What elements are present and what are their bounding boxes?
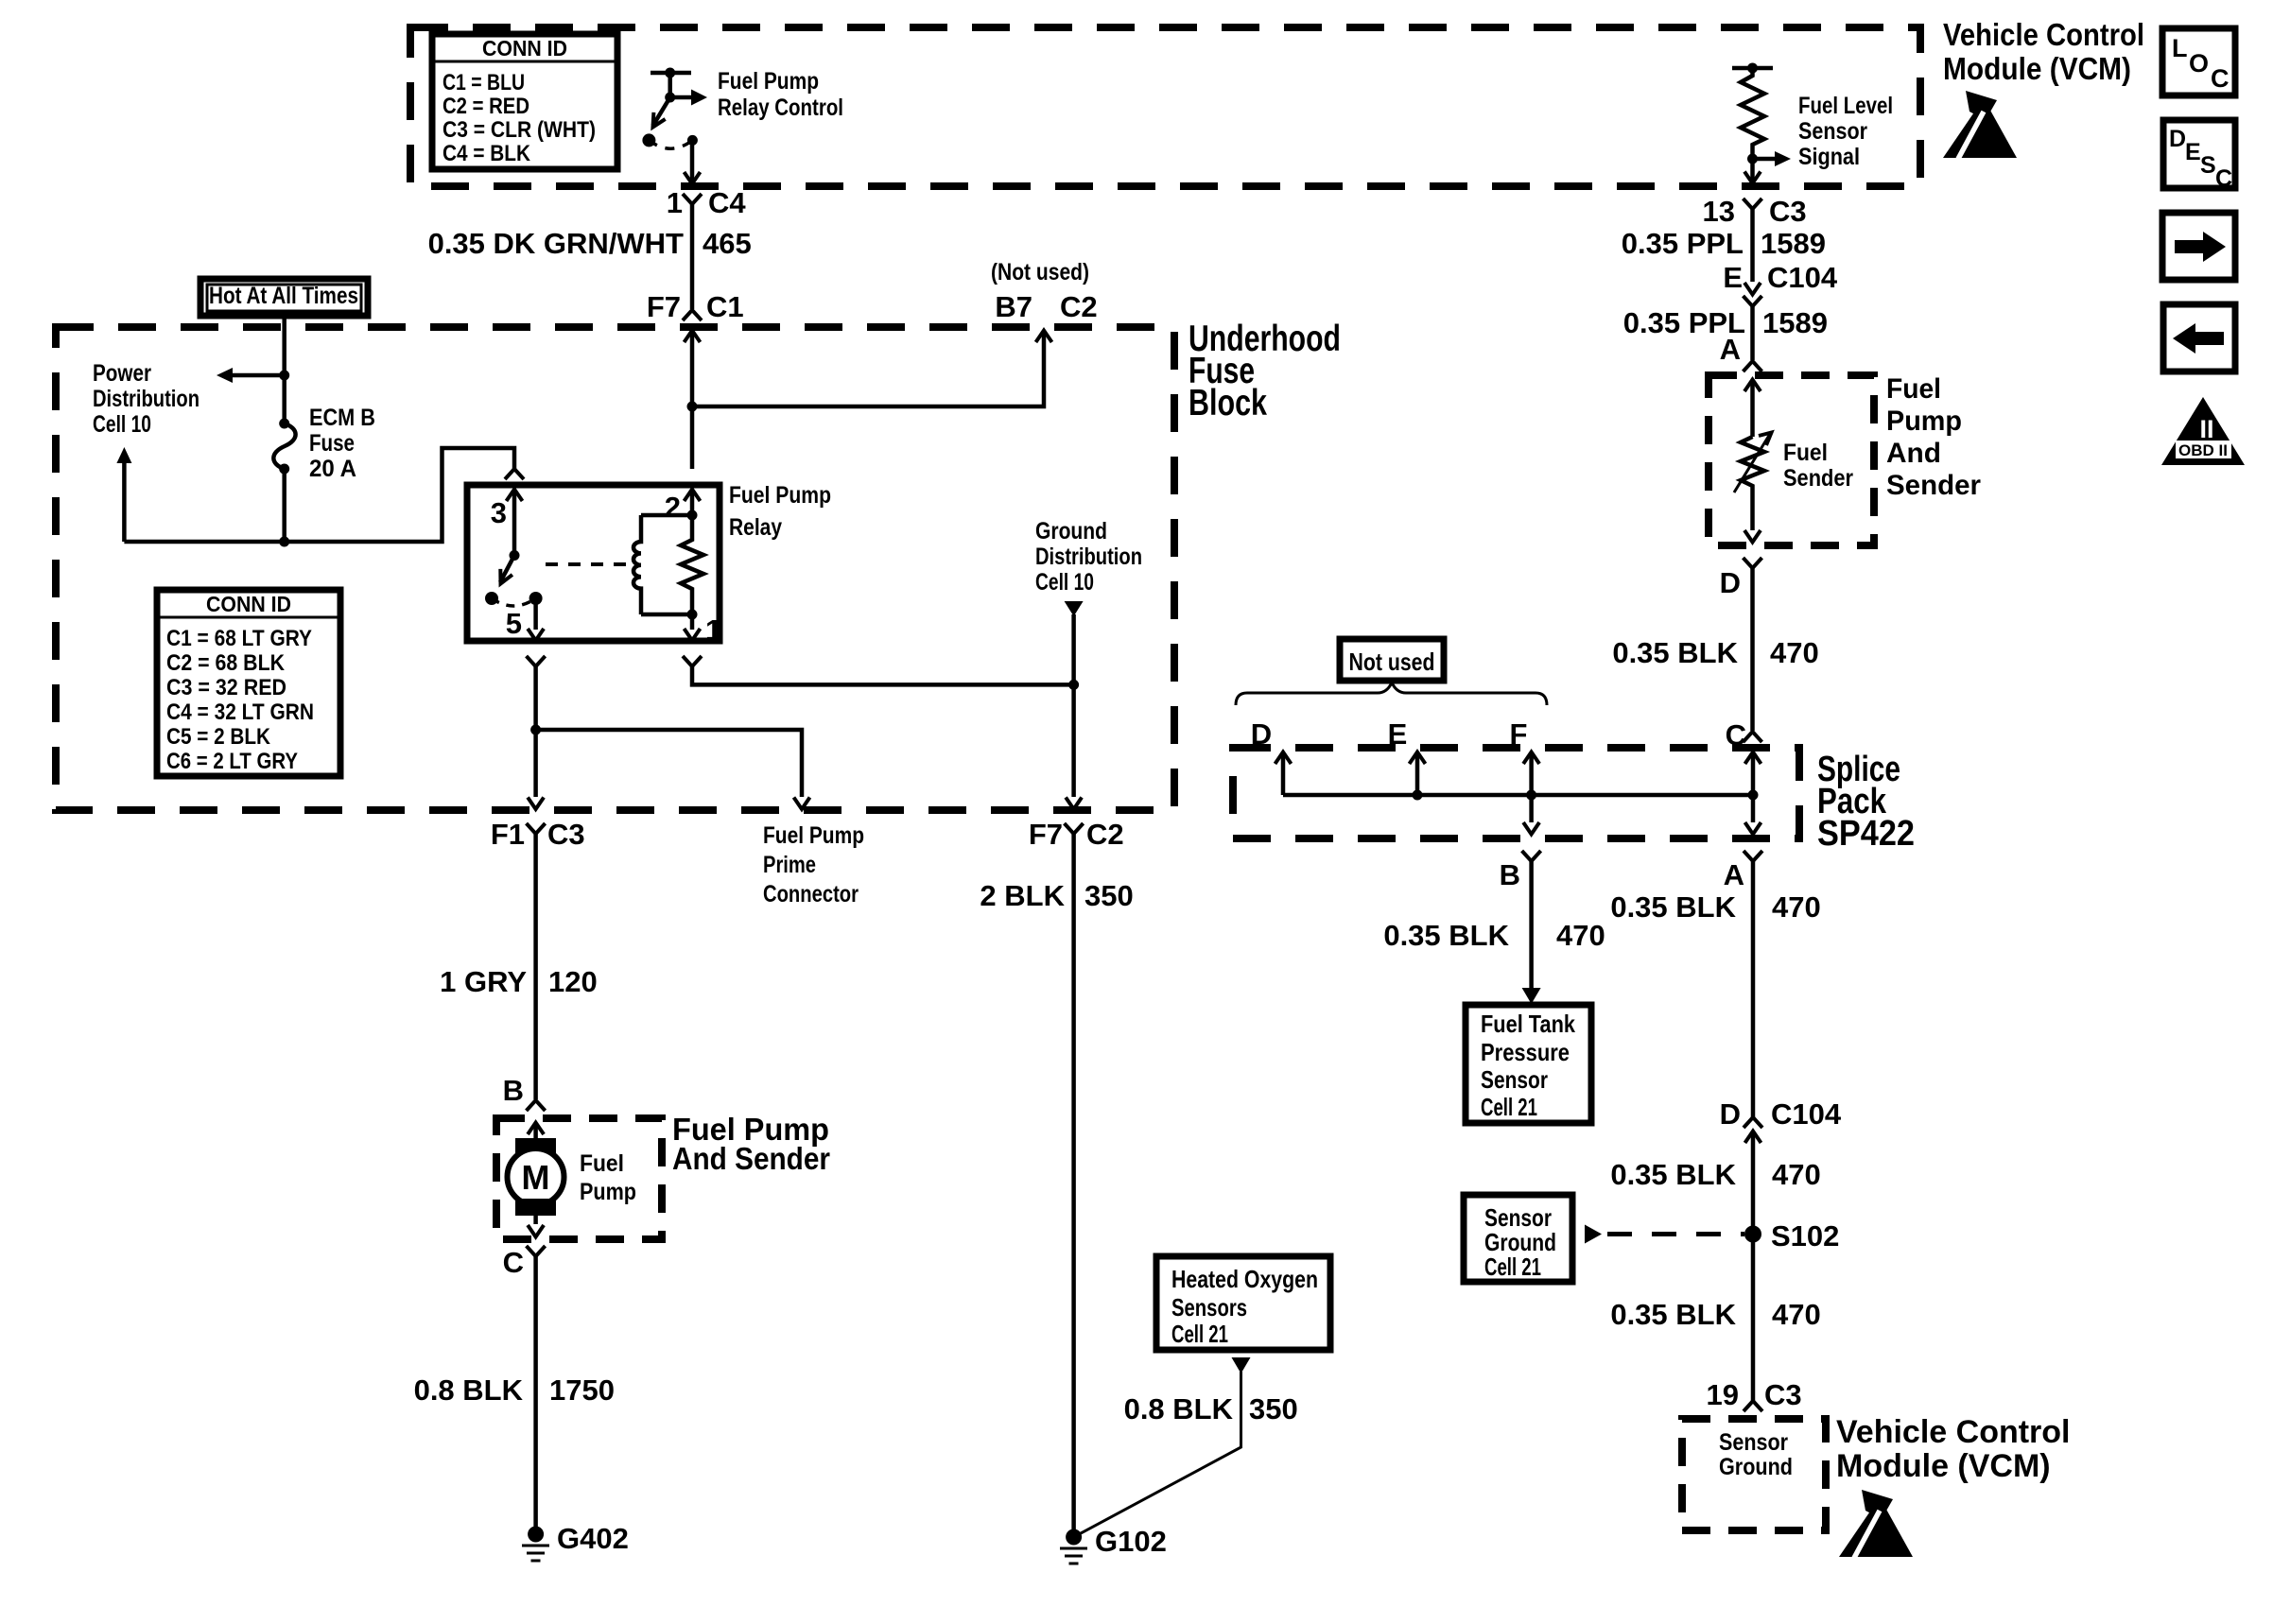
svg-text:F1: F1 [491,818,525,851]
fuel sender dashed box [1709,375,1874,545]
svg-text:3: 3 [491,496,507,529]
svg-text:Fuel Pump: Fuel Pump [763,822,864,849]
Not used callout box [1340,639,1444,681]
svg-text:C104: C104 [1771,1097,1842,1131]
svg-text:13: 13 [1703,195,1735,228]
svg-text:B7: B7 [995,290,1032,323]
wire to fuel pump prime connector [536,730,802,797]
svg-text:5: 5 [506,607,522,640]
svg-text:ECM B: ECM B [309,405,375,431]
svg-text:C3: C3 [547,818,585,851]
VCM top dashed box [410,27,1920,186]
svg-text:C: C [503,1246,524,1279]
svg-text:350: 350 [1084,879,1134,912]
svg-text:0.35 PPL: 0.35 PPL [1622,227,1744,260]
svg-text:A: A [1720,333,1741,366]
svg-text:465: 465 [703,227,752,260]
svg-text:Relay Control: Relay Control [718,95,843,121]
svg-text:C: C [2211,64,2230,93]
relay pin 5 cup below [527,656,546,666]
svg-text:Pump: Pump [1886,406,1962,437]
svg-text:1 GRY: 1 GRY [440,965,527,998]
svg-text:S102: S102 [1771,1219,1839,1253]
fuel sender variable resistor [1741,437,1764,490]
svg-text:And Sender: And Sender [672,1141,830,1176]
svg-text:1589: 1589 [1762,306,1828,339]
svg-text:0.35 BLK: 0.35 BLK [1610,1158,1736,1191]
wire sender to splice [1750,568,1755,731]
svg-text:0.8 BLK: 0.8 BLK [414,1373,524,1407]
ground G402 [522,1522,629,1561]
svg-text:Cell 21: Cell 21 [1171,1320,1228,1348]
svg-text:D: D [1720,1097,1741,1131]
HO2S feed triangle + wire to G102 [1232,1357,1251,1373]
svg-text:C4 = BLK: C4 = BLK [442,141,531,166]
relay pin 1 cup below [683,656,702,666]
wire from fuse to relay pin 3 [282,469,286,542]
svg-text:Cell 21: Cell 21 [1481,1093,1537,1121]
svg-text:Sender: Sender [1886,470,1981,501]
brace over D E F [1236,682,1547,705]
svg-text:C4 = 32 LT GRN: C4 = 32 LT GRN [166,700,314,725]
svg-text:Fuel: Fuel [1886,373,1941,405]
svg-text:Heated Oxygen: Heated Oxygen [1171,1265,1318,1293]
svg-text:Vehicle Control: Vehicle Control [1836,1414,2071,1450]
svg-text:Connector: Connector [763,881,859,907]
Underhood Fuse Block dashed box [56,327,1174,810]
splice pack SP422 dashed box [1233,748,1799,838]
svg-text:C2: C2 [1086,818,1124,851]
splice terminal C/A (through) [1745,752,1761,765]
fuse ECM B 20A [273,419,295,475]
svg-text:Fuel Tank: Fuel Tank [1481,1010,1575,1038]
svg-text:Fuel Level: Fuel Level [1798,93,1893,119]
svg-text:0.35 BLK: 0.35 BLK [1610,1298,1736,1331]
wire to B7/C2 [692,332,1044,406]
svg-text:A: A [1724,858,1744,891]
svg-text:B: B [1500,858,1520,891]
wire pin5 down + junction [533,666,538,797]
svg-text:C3 = CLR (WHT): C3 = CLR (WHT) [442,117,596,143]
svg-text:C: C [2215,165,2232,192]
svg-text:1750: 1750 [549,1373,615,1407]
ground distribution feed triangle [1065,601,1084,616]
svg-text:0.35 DK GRN/WHT: 0.35 DK GRN/WHT [428,227,684,260]
svg-text:Block: Block [1189,383,1267,423]
svg-text:B: B [503,1074,524,1107]
svg-text:G102: G102 [1095,1525,1167,1558]
wire 1589 upper [1750,209,1755,282]
fuel pump relay box [467,485,720,641]
svg-text:470: 470 [1556,919,1605,952]
switch: fuel pump relay control driver [642,68,707,184]
relay pin 2 [685,490,701,502]
svg-text:C2 = 68 BLK: C2 = 68 BLK [166,650,286,676]
VCM bottom dashed box (sensor ground) [1682,1419,1826,1530]
svg-text:C3: C3 [1764,1378,1802,1411]
svg-text:E: E [1723,261,1743,294]
svg-text:Sensor: Sensor [1481,1065,1548,1094]
arrow into sender box [1744,380,1761,392]
Hot At All Times flag box [200,279,368,316]
svg-text:C6 = 2 LT GRY: C6 = 2 LT GRY [166,749,298,774]
connector F7/C2 [1065,823,1084,834]
CONN ID table (fuse block connectors) [157,590,340,776]
svg-text:C1 = BLU: C1 = BLU [442,70,525,95]
icon DESC [2163,120,2235,192]
relay contact dots + dashed arc [485,592,498,605]
ESD warning symbol (VCM top) [1943,91,2017,159]
svg-text:Vehicle Control: Vehicle Control [1943,17,2144,52]
svg-text:Sensor: Sensor [1719,1429,1788,1456]
svg-text:Fuel: Fuel [1783,440,1828,466]
svg-text:350: 350 [1249,1392,1298,1425]
connector F1/C3 [527,823,546,834]
svg-text:120: 120 [548,965,598,998]
svg-text:C104: C104 [1767,261,1838,294]
svg-text:1: 1 [667,186,683,219]
svg-text:Fuel Pump: Fuel Pump [718,68,819,95]
svg-text:Sender: Sender [1783,465,1853,492]
svg-text:E: E [2185,139,2201,165]
svg-text:Cell 21: Cell 21 [1484,1253,1541,1281]
svg-text:470: 470 [1772,1158,1821,1191]
splice S102 [1744,1226,1761,1243]
wire B to fuel tank pressure sensor [1529,861,1534,989]
svg-text:19: 19 [1707,1378,1739,1411]
svg-text:F7: F7 [1029,818,1063,851]
svg-text:470: 470 [1772,1298,1821,1331]
svg-text:0.35 BLK: 0.35 BLK [1612,636,1738,669]
connector D below sender [1744,558,1762,568]
svg-text:G402: G402 [557,1522,629,1555]
relay pin 5 [533,598,538,630]
connector 13/C3 [1744,199,1762,209]
svg-text:Cell 10: Cell 10 [93,411,151,438]
svg-text:Distribution: Distribution [93,386,200,412]
svg-text:D: D [2169,126,2186,152]
svg-text:C3 = 32 RED: C3 = 32 RED [166,675,286,700]
svg-text:C1 = 68 LT GRY: C1 = 68 LT GRY [166,626,312,651]
svg-text:0.35 BLK: 0.35 BLK [1610,890,1736,924]
svg-text:C2 = RED: C2 = RED [442,94,529,119]
icon OBD II triangle [2161,397,2245,465]
sensor ground callout box [1464,1195,1572,1282]
svg-text:2: 2 [665,491,681,524]
svg-text:C1: C1 [706,290,744,323]
splice terminal D [1275,752,1292,765]
svg-text:II: II [2199,415,2213,443]
svg-text:C3: C3 [1769,195,1807,228]
arrow into fuse block at F7/C1 + wire [685,331,701,343]
svg-text:S: S [2200,152,2216,179]
svg-text:And: And [1886,438,1941,469]
svg-text:470: 470 [1770,636,1819,669]
ESD warning symbol (VCM bottom) [1839,1490,1913,1558]
svg-text:Distribution: Distribution [1035,544,1142,570]
icon arrow right [2162,213,2235,280]
wire from Hot At All Times [282,316,286,423]
wire 2 BLK 350 [1071,834,1076,1529]
svg-text:C2: C2 [1060,290,1098,323]
fuel level sensor resistor [1732,63,1791,184]
wire C104 to S102 to 19/C3 [1751,1132,1756,1402]
svg-text:SP422: SP422 [1817,814,1915,854]
ground G102 [1060,1525,1167,1564]
svg-text:Module (VCM): Module (VCM) [1943,51,2131,86]
icon arrow left [2163,304,2235,371]
relay coil [633,510,698,620]
svg-text:CONN ID: CONN ID [482,36,567,60]
svg-text:Module (VCM): Module (VCM) [1836,1448,2051,1484]
svg-text:2 BLK: 2 BLK [980,879,1065,912]
connector 1/C4 [683,194,702,204]
svg-text:F7: F7 [647,290,681,323]
svg-text:Not used: Not used [1349,648,1435,676]
relay pin 3 [505,469,524,479]
svg-text:Relay: Relay [729,514,782,541]
icon LOC [2162,28,2235,95]
svg-text:1: 1 [705,613,721,647]
relay pin 1 [690,614,695,630]
svg-text:Cell 10: Cell 10 [1035,569,1094,596]
svg-text:20 A: 20 A [309,456,356,482]
wire pin1 to ground distribution junction [692,666,1074,684]
svg-text:Pressure: Pressure [1481,1038,1570,1066]
svg-text:Power: Power [93,360,151,387]
splice internal bus [1283,793,1753,798]
sensor ground dashed link to S102 [1585,1225,1602,1244]
svg-text:Sensor: Sensor [1798,118,1867,145]
splice terminal E [1410,752,1426,765]
svg-text:CONN ID: CONN ID [206,592,291,616]
wire 1 GRY 120 [533,834,538,1099]
wire 0.8 BLK 1750 [533,1255,538,1529]
arrow up power distribution feed [122,461,127,542]
svg-text:L: L [2172,34,2188,62]
svg-text:M: M [522,1158,550,1197]
arrow to Power Distribution [232,373,285,378]
svg-text:Fuse: Fuse [309,430,355,457]
svg-text:Fuel Pump: Fuel Pump [729,482,831,509]
svg-text:Sensors: Sensors [1171,1293,1247,1322]
svg-text:(Not used): (Not used) [991,259,1089,285]
wire 1589 lower [1750,306,1755,360]
relay resistor [681,515,703,614]
svg-text:Prime: Prime [763,852,816,878]
fuel tank pressure sensor callout box [1466,1005,1591,1123]
svg-text:D: D [1720,566,1741,599]
svg-text:1589: 1589 [1761,227,1826,260]
svg-text:Ground: Ground [1719,1454,1793,1480]
junction node B7 branch [687,402,698,412]
svg-text:Pump: Pump [580,1179,636,1205]
svg-text:0.35 BLK: 0.35 BLK [1383,919,1509,952]
wire A down to C104 [1751,861,1756,1118]
svg-text:Ground: Ground [1035,518,1107,544]
relay switch blade [500,556,514,583]
svg-text:Signal: Signal [1798,144,1860,170]
fuel pump dashed box [496,1118,662,1239]
wire 465 [690,204,695,309]
svg-text:Hot At All Times: Hot At All Times [209,283,358,309]
relay dashed link to coil [546,562,629,566]
svg-text:0.8 BLK: 0.8 BLK [1124,1392,1234,1425]
splice terminal F (through) [1523,752,1539,765]
svg-text:Fuel: Fuel [580,1150,624,1177]
heated oxygen sensors callout box [1156,1256,1330,1350]
svg-text:C4: C4 [708,186,746,219]
svg-text:470: 470 [1772,890,1821,924]
arrow into pump box [528,1123,544,1135]
fuel pump motor [508,1138,564,1216]
svg-text:O: O [2189,49,2209,78]
CONN ID table (VCM connector colors) [432,34,617,169]
connector F7/C1 [683,310,702,320]
arrow down inside pump box [533,1216,538,1224]
svg-text:C5 = 2 BLK: C5 = 2 BLK [166,724,271,750]
svg-text:OBD II: OBD II [2178,441,2228,459]
